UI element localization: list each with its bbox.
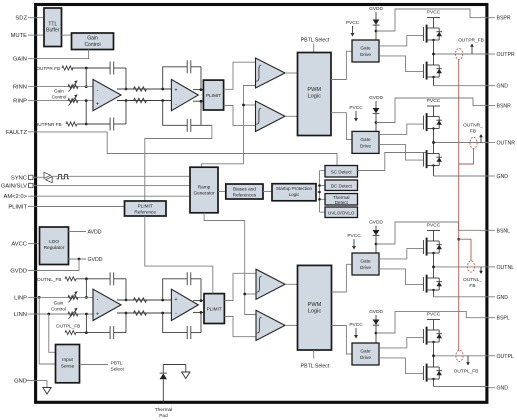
svg-text:Drive: Drive [360, 265, 371, 270]
transistor high-side MOSFET unit L high (BSPL/OUTPL) [423, 329, 425, 343]
pin box SYNC [29, 175, 33, 179]
wire PLIMIT ref to L [145, 216, 213, 294]
capacitor C-fb-L2-top [186, 272, 188, 285]
junction fet source2 unit L high (BSPL/OUTPL) [432, 378, 434, 380]
svg-text:Drive: Drive [360, 143, 371, 148]
junction op2R in2 [161, 99, 164, 102]
junction detect b [318, 191, 321, 194]
pin PLIMIT (left) [8, 205, 35, 211]
PLIMIT block R [203, 80, 223, 110]
svg-text:Gain: Gain [87, 36, 98, 42]
wire comparator R2 out [285, 115, 298, 117]
resistor interstage R bot [134, 98, 147, 102]
svg-text:PLIMIT: PLIMIT [207, 307, 222, 312]
svg-text:PVCC: PVCC [427, 98, 441, 104]
wire RINP into op-amp [36, 100, 93, 102]
SC Detect block [325, 166, 358, 178]
svg-text:+: + [174, 87, 177, 93]
svg-text:GND: GND [497, 386, 509, 392]
svg-text:Logic: Logic [308, 93, 322, 99]
svg-text:Control: Control [84, 42, 100, 48]
wire gate drive low out unit R low (BSNR/OUTNR) [379, 144, 424, 160]
resistor interstage R top [134, 87, 147, 91]
junction plimitR in1 [200, 88, 203, 91]
variable resistor gain RINN [68, 80, 78, 91]
wire fb to LINP [85, 279, 87, 298]
junction OUTPR FB node [85, 67, 88, 70]
wire PWM L to gate drive 3 [332, 264, 353, 292]
svg-text:Control: Control [51, 307, 66, 312]
capacitor C-fb-R1-top [109, 62, 111, 75]
svg-text:GVDD: GVDD [88, 257, 103, 263]
wire gate drive high out unit R low (BSNR/OUTNR) [379, 124, 424, 134]
resistor interstage L bot [134, 311, 147, 315]
wire fet stack unit L high (BSPL/OUTPL) [433, 342, 435, 387]
svg-text:PVCC: PVCC [349, 322, 363, 328]
svg-text:PVCC: PVCC [346, 20, 360, 26]
wire gnd line unit L high (BSPL/OUTPL) [434, 386, 489, 388]
wire op2L top fb rail [163, 279, 201, 301]
junction ramp R [242, 104, 245, 107]
wire comparator R1 out [285, 72, 298, 74]
wire op1R out1 to op2R [117, 88, 171, 90]
svg-text:PVCC: PVCC [427, 10, 441, 16]
resistor OUTPNR FB [66, 122, 77, 126]
comparator L1 [256, 269, 285, 299]
svg-text:GVDD: GVDD [369, 309, 383, 315]
svg-text:PVCC: PVCC [427, 223, 441, 229]
op-amp R first stage [93, 79, 121, 110]
PWM Logic block L [298, 265, 332, 350]
comparator R2 [256, 101, 286, 132]
transistor high-side MOSFET unit R low (BSNR/OUTNR) [423, 116, 425, 130]
svg-text:Gain: Gain [54, 88, 64, 93]
wire PWM L to gate drive 4 [332, 326, 353, 355]
Gate Drive block unit L high (BSPL/OUTPL) [352, 343, 379, 365]
svg-text:-: - [175, 311, 177, 317]
junction GVDD [78, 258, 81, 261]
pin GAIN (left) [13, 57, 36, 63]
wire PLIMIT L out2 to comparator [224, 317, 256, 337]
svg-text:OUTNL: OUTNL [497, 265, 515, 271]
resistor OUTNL_FB [65, 277, 76, 281]
pin RINN (left) [13, 85, 36, 91]
svg-text:GND: GND [497, 174, 509, 180]
capacitor C-fb-L2-bot [186, 326, 188, 339]
wire fet stack unit R low (BSNR/OUTNR) [433, 129, 435, 177]
SYNC input buffer [44, 172, 51, 178]
transistor low-side MOSFET unit L high (BSPL/OUTPL) [423, 366, 425, 380]
wire LINN to input sense [49, 314, 56, 352]
net OUTNR_FB label [463, 123, 483, 143]
wire gate drive high out unit R high (BSPR/OUTPR) [379, 36, 424, 46]
svg-text:Gain: Gain [54, 301, 64, 306]
ellipse OUTNL sense [467, 261, 474, 272]
junction fet source2 unit R low (BSNR/OUTNR) [432, 164, 434, 166]
pin BSNL (right) [489, 228, 511, 234]
wire LINN to bottom rail [85, 314, 87, 333]
wire fet stack unit L low (BSNL/OUTNL) [433, 253, 435, 297]
wire ramp to R comparators [201, 86, 255, 168]
junction plimitR in2 [200, 100, 203, 103]
wire biases to startup [263, 191, 272, 193]
junction OUTPL_FB node [85, 331, 88, 334]
op-amp L second stage [171, 289, 198, 320]
junction OUTNL_FB node [85, 277, 88, 280]
square wave symbol [57, 175, 70, 179]
svg-text:MUTE: MUTE [11, 33, 28, 39]
wire op1L out2 to op2L [117, 312, 171, 314]
junction plimitL in1 [200, 299, 203, 302]
svg-text:LINN: LINN [14, 312, 27, 318]
svg-text:AVCC: AVCC [11, 242, 27, 248]
pin BSNR (right) [489, 104, 512, 110]
svg-text:FB: FB [469, 283, 475, 289]
svg-text:Select: Select [111, 367, 125, 373]
svg-text:AM<2:0>: AM<2:0> [3, 194, 27, 200]
pin GND (left) [14, 379, 35, 385]
svg-text:Detect: Detect [335, 200, 349, 205]
svg-text:FB: FB [470, 129, 476, 135]
capacitor C-fb-L1-top [109, 272, 111, 285]
svg-text:+: + [96, 311, 99, 317]
pin RINP (left) [13, 99, 35, 105]
variable resistor gain LINN [68, 308, 78, 319]
net OUTPL_FB label [454, 356, 479, 375]
svg-text:UVLO/OVLO: UVLO/OVLO [328, 210, 355, 215]
svg-text:Logic: Logic [308, 308, 322, 314]
wire op1L out1 to op2L [117, 299, 171, 301]
svg-text:Generator: Generator [193, 191, 215, 196]
wire PWM R to gate drive 1 [331, 51, 352, 79]
svg-text:Drive: Drive [360, 52, 371, 57]
label gain control (R input) [52, 88, 67, 99]
svg-text:Biases and: Biases and [233, 186, 256, 191]
wire gnd line unit L low (BSNL/OUTNL) [434, 296, 489, 298]
svg-text:GAIN/SLV: GAIN/SLV [1, 183, 27, 189]
svg-text:+: + [96, 102, 99, 108]
label PBTL Select (bottom) [301, 350, 330, 370]
svg-text:GND: GND [14, 379, 27, 385]
wire bootstrap unit L low (BSNL/OUTNL) [376, 222, 489, 244]
ground GND arrow (bottom left) [26, 381, 51, 394]
svg-text:RINN: RINN [13, 85, 27, 91]
svg-text:OUTPR_FB: OUTPR_FB [458, 38, 484, 44]
junction GVDD unit L low (BSNL/OUTNL) [375, 243, 378, 246]
svg-text:AVDD: AVDD [88, 230, 102, 236]
svg-text:SYNC: SYNC [11, 175, 27, 181]
junction op1L out2 [125, 312, 128, 315]
svg-text:Drive: Drive [360, 355, 371, 360]
pin AM<2:0> (left) [3, 194, 35, 200]
junction op2R in1 [161, 88, 164, 91]
wire op2L to PLIMIT [193, 301, 204, 313]
svg-text:Ramp: Ramp [198, 185, 211, 190]
junction plimitL in2 [200, 311, 203, 314]
wire OUTPR FB rail [72, 68, 126, 89]
svg-text:FAULTZ: FAULTZ [6, 130, 28, 136]
svg-text:PWM: PWM [308, 302, 322, 308]
wire AVCC to LDO [36, 243, 40, 245]
diode GVDD unit L low (BSNL/OUTNL) [373, 226, 380, 253]
svg-text:SC Detect: SC Detect [331, 169, 353, 174]
supply PVCC tee unit L low (BSNL/OUTNL) [427, 231, 440, 242]
Gate Drive block unit R high (BSPR/OUTPR) [352, 40, 379, 62]
wire feedback bus (red) [458, 60, 460, 351]
wire output line unit L high (BSPL/OUTPL) [434, 355, 489, 357]
wire op2R bottom fb rail [163, 101, 212, 126]
capacitor C-fb-R2-bot [186, 119, 188, 132]
svg-text:LDO: LDO [49, 239, 59, 245]
pin box GAIN/SLV [29, 183, 33, 187]
junction op1R out2 [125, 99, 128, 102]
wire MUTE to TTL buffer [36, 34, 44, 36]
svg-text:Gate: Gate [360, 46, 371, 51]
PLIMIT block L [204, 294, 224, 324]
svg-text:BSPR: BSPR [497, 16, 511, 22]
pin LINN (left) [14, 312, 36, 318]
net OUTNL_FB label [463, 267, 483, 289]
wire gate drive low out unit R high (BSPR/OUTPR) [379, 56, 424, 72]
PWM Logic block R [298, 53, 332, 136]
thermal pad diode [160, 365, 167, 404]
junction OUTPNR FB node [85, 123, 88, 126]
wire output line unit R high (BSPR/OUTPR) [434, 53, 489, 55]
wire FAULTZ to SC detect [36, 132, 337, 166]
junction output node unit L low (BSNL/OUTNL) [432, 266, 435, 269]
wire bottom fb rail L [76, 313, 126, 333]
diode GVDD unit R high (BSPR/OUTPR) [373, 12, 380, 40]
wire gate drive high out unit L high (BSPL/OUTPL) [379, 338, 424, 348]
pin GAIN/SLV (left) [1, 183, 36, 189]
capacitor C-fb-L1-bot [109, 326, 111, 339]
op-amp R second stage [171, 79, 198, 110]
svg-text:PVCC: PVCC [347, 233, 361, 239]
svg-text:Input: Input [62, 357, 73, 363]
svg-text:Gate: Gate [360, 259, 371, 264]
junction RINP node [85, 99, 88, 102]
wire GVDD out [69, 258, 87, 260]
wire output line unit L low (BSNL/OUTNL) [434, 266, 489, 268]
svg-text:PLIMIT: PLIMIT [8, 205, 27, 211]
wire PLIMIT pin to PLIMIT reference [36, 206, 125, 208]
transistor low-side MOSFET unit R low (BSNR/OUTNR) [423, 153, 425, 167]
svg-text:Reference: Reference [134, 209, 156, 214]
label Thermal Pad [155, 407, 173, 419]
svg-text:PBTL: PBTL [111, 361, 123, 367]
pin GND (right) [489, 386, 509, 392]
wire op2L bottom fb rail [163, 312, 201, 332]
capacitor C-fb-R2-top [186, 60, 188, 73]
svg-text:SDZ: SDZ [15, 16, 27, 22]
svg-text:OUTNR_: OUTNR_ [463, 123, 483, 129]
supply PVCC tee unit L high (BSPL/OUTPL) [427, 320, 440, 331]
svg-text:OUTPR FB: OUTPR FB [36, 66, 60, 71]
label PBTL Select (top) [301, 38, 330, 53]
svg-text:PWM: PWM [307, 87, 321, 93]
Gate Drive block unit R low (BSNR/OUTNR) [352, 131, 379, 153]
op-amp L first stage [93, 289, 121, 320]
net OUTPR_FB label [458, 38, 484, 55]
svg-text:Startup Protection: Startup Protection [276, 186, 313, 191]
svg-text:BSNR: BSNR [497, 104, 512, 110]
ellipse OUTPL sense [456, 350, 463, 361]
wire LINP into op-amp [36, 296, 93, 298]
variable resistor gain LINP [68, 291, 78, 302]
resistor OUTPL_FB [65, 331, 76, 335]
svg-text:PVCC: PVCC [427, 312, 441, 318]
svg-text:-: - [175, 101, 177, 107]
junction fet source2 unit R high (BSPR/OUTPR) [432, 76, 434, 78]
svg-text:PBTL Select: PBTL Select [301, 38, 330, 44]
wire op2R top fb rail [163, 67, 201, 90]
wire SDZ to TTL buffer [36, 17, 44, 19]
pin FAULTZ (left) [6, 130, 36, 136]
wire gate drive low out unit L low (BSNL/OUTNL) [379, 269, 424, 285]
Gain Control block (top) [72, 33, 114, 50]
junction RINN node [85, 85, 88, 88]
TTL Buffer U-ttl [44, 8, 62, 47]
svg-text:GND: GND [497, 84, 509, 90]
svg-text:GVDD: GVDD [10, 269, 27, 275]
wire SYNC to ramp generator [33, 176, 190, 177]
wire gate drive low out unit L high (BSPL/OUTPL) [379, 358, 424, 374]
junction LINP node [85, 296, 88, 299]
svg-text:RINP: RINP [13, 99, 27, 105]
pin SDZ (left) [15, 16, 35, 22]
wire ramp to L comparators [204, 213, 256, 315]
svg-text:GVDD: GVDD [369, 95, 383, 101]
junction output node unit R low (BSNR/OUTNR) [432, 141, 435, 144]
junction GVDD unit L high (BSPL/OUTPL) [375, 332, 378, 335]
wire fet stack unit R high (BSPR/OUTPR) [433, 40, 435, 86]
wire ramp gen to biases [218, 191, 226, 193]
wire OUTNL_FB rail [76, 279, 126, 300]
pin LINP (left) [14, 295, 35, 301]
wire startup to detect column [316, 191, 320, 193]
svg-text:BSNL: BSNL [497, 228, 511, 234]
arrow PVCC unit R low (BSNR/OUTNR) [354, 111, 358, 122]
junction op1R out1 [125, 88, 128, 91]
pin GVDD (left) [10, 269, 35, 275]
svg-text:GND: GND [497, 295, 509, 301]
junction fet source1 unit L high (BSPL/OUTPL) [432, 341, 434, 343]
label gain control (L input) [51, 301, 66, 312]
transistor high-side MOSFET unit L low (BSNL/OUTNL) [423, 240, 425, 254]
wire fb to RINN [85, 68, 87, 87]
wire output line unit R low (BSNR/OUTNR) [434, 142, 489, 144]
junction feedback bus [457, 238, 460, 241]
transistor low-side MOSFET unit L low (BSNL/OUTNL) [423, 277, 425, 291]
svg-text:OUTNL_: OUTNL_ [463, 277, 482, 283]
DC Detect block [325, 180, 358, 191]
wire comparator L1 out [285, 283, 298, 285]
PLIMIT Reference block [125, 201, 167, 216]
junction op1L out1 [125, 299, 128, 302]
svg-text:Gate: Gate [360, 349, 371, 354]
junction detect c [318, 198, 321, 201]
wire PLIMIT R out1 to comparator [224, 62, 256, 89]
Ramp Generator block [190, 167, 218, 213]
comparator L2 [256, 310, 285, 340]
svg-text:BSPL: BSPL [497, 316, 510, 322]
ellipse OUTNR sense [470, 137, 477, 148]
svg-text:PLIMIT: PLIMIT [138, 203, 153, 208]
wire PLIMIT ref link [145, 125, 212, 201]
wire PWM R to gate drive 2 [331, 113, 352, 140]
capacitor C-fb-R1-bot [109, 118, 111, 131]
svg-text:PBTL Select: PBTL Select [301, 364, 330, 370]
junction fet source1 unit L low (BSNL/OUTNL) [432, 252, 434, 254]
wire bootstrap unit L high (BSPL/OUTPL) [376, 311, 489, 333]
junction detect a [318, 184, 321, 187]
transistor high-side MOSFET unit R high (BSPR/OUTPR) [423, 27, 425, 41]
resistor OUTPR FB [62, 66, 73, 70]
junction fet source1 unit R high (BSPR/OUTPR) [432, 39, 434, 41]
wire PLIMIT R out2 to comparator [224, 106, 256, 126]
pin OUTPL (right) [489, 354, 514, 360]
supply PVCC tee unit R high (BSPR/OUTPR) [427, 18, 440, 29]
wire LINN into op-amp [36, 313, 93, 315]
svg-text:Buffer: Buffer [46, 28, 60, 34]
ellipse OUTPR sense [455, 48, 462, 59]
Input Sense block [56, 345, 80, 383]
svg-text:PLIMIT: PLIMIT [206, 93, 221, 98]
wire AM<2:0> to ramp generator [36, 195, 190, 197]
wire GAIN/SLV to ramp generator [33, 184, 190, 186]
svg-text:Sense: Sense [61, 364, 75, 370]
wire LINP to input sense [39, 297, 55, 364]
pin OUTNL (right) [489, 265, 515, 271]
junction LINP branch [38, 296, 41, 299]
svg-text:-: - [97, 87, 99, 93]
wire OUTNR feedback (red) [459, 149, 474, 165]
Startup Protection Logic block [272, 184, 316, 201]
wire GAIN to gain control [36, 50, 89, 59]
svg-text:Control: Control [52, 94, 67, 99]
wire detect column [320, 171, 326, 213]
wire AVDD out [69, 231, 87, 233]
ground arrow (thermal) [182, 372, 190, 379]
svg-text:Pad: Pad [159, 413, 168, 419]
svg-text:OUTPL: OUTPL [497, 354, 514, 360]
UVLO/OVLO block [325, 207, 358, 218]
wire op2R to PLIMIT [193, 90, 203, 102]
junction output node unit R high (BSPR/OUTPR) [432, 53, 435, 56]
pin MUTE (left) [11, 33, 36, 39]
wire RINN into op-amp [36, 86, 93, 88]
junction ramp L [243, 293, 246, 296]
pin OUTNR (right) [489, 141, 516, 147]
wire comparator L2 out [285, 324, 298, 326]
pin SYNC (left) [11, 175, 36, 181]
svg-text:OUTNL_FB: OUTNL_FB [37, 277, 61, 282]
svg-text:Thermal: Thermal [155, 407, 173, 413]
junction op2L in1 [161, 299, 164, 302]
wire SC detect to output stage [358, 153, 427, 171]
comparator R1 [256, 58, 286, 88]
junction op2L in2 [161, 312, 164, 315]
svg-text:OUTPL_FB: OUTPL_FB [56, 324, 80, 329]
svg-text:References: References [233, 192, 257, 197]
junction fet source1 unit R low (BSNR/OUTNR) [432, 127, 434, 129]
wire bootstrap unit R high (BSPR/OUTPR) [376, 9, 489, 31]
svg-text:OUTNR: OUTNR [497, 141, 516, 147]
diode GVDD unit R low (BSNR/OUTNR) [373, 101, 380, 131]
pin BSPL (right) [489, 316, 510, 322]
wire bootstrap unit R low (BSNR/OUTNR) [376, 98, 489, 123]
wire op1R out2 to op2R [117, 100, 171, 102]
